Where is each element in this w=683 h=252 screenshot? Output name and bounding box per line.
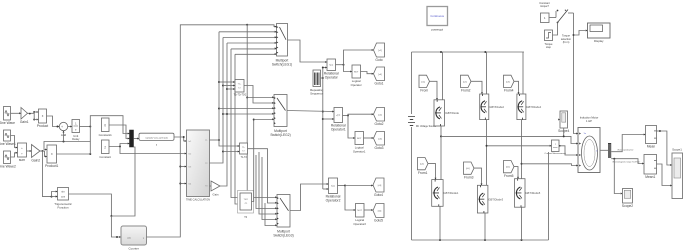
svg-text:Operator2: Operator2: [353, 222, 366, 226]
svg-text:Product: Product: [37, 124, 48, 128]
svg-text:Delay: Delay: [72, 137, 80, 141]
svg-text:Display: Display: [594, 39, 604, 43]
svg-text:Sequence: Sequence: [310, 92, 323, 96]
svg-text:Goto2: Goto2: [375, 122, 384, 126]
wire T2 out to bundle: [210, 38, 240, 164]
wire block B out to switch LEG3: [248, 149, 278, 204]
wire right rail from negative bus: [548, 152, 550, 240]
induction motor block: [578, 116, 600, 173]
svg-text:Continuous: Continuous: [430, 14, 444, 18]
svg-text:Goto3: Goto3: [375, 146, 384, 150]
scope Scope1: [672, 148, 683, 199]
source Sine Wave2: [0, 151, 16, 169]
svg-text:In4: In4: [189, 184, 192, 186]
wire IGBT4 emitter to negative bus: [439, 206, 441, 240]
svg-text:Constant1: Constant1: [99, 133, 113, 137]
svg-text:[s6]: [s6]: [506, 167, 510, 169]
gain Gain2: [31, 145, 40, 163]
wire AND1 to Goto3: [364, 137, 374, 139]
wire manual switch to display and motor Tm: [573, 13, 588, 134]
wire leg2 midpoint: [486, 120, 488, 186]
svg-text:Mean1: Mean1: [645, 175, 655, 179]
svg-text:powergui: powergui: [431, 28, 443, 32]
svg-text:Constant: Constant: [99, 155, 111, 159]
goto Goto1: [374, 67, 385, 86]
wire bus selector to Mean with signal label: [611, 134, 645, 152]
wire leg1 midpoint: [440, 126, 442, 180]
wire From3 to IGBT5 gate: [474, 168, 482, 185]
svg-text:[s4]: [s4]: [378, 74, 382, 76]
wire IGBT1 collector to bus: [442, 52, 444, 100]
svg-text:<Rotor speed (wm)>: <Rotor speed (wm)>: [617, 149, 633, 152]
svg-text:[s3]: [s3]: [378, 185, 382, 187]
igbt IGBT/Diode4: [517, 94, 542, 120]
wire gain2 to trigonometric function: [43, 151, 58, 198]
wire Constant to Mux: [109, 143, 130, 148]
igbt IGBT/Diode2: [480, 94, 505, 120]
multiport switch LEG2: [270, 95, 290, 137]
svg-text:1 HP: 1 HP: [586, 119, 592, 123]
svg-text:Operator: Operator: [325, 76, 339, 80]
svg-text:[s4]: [s4]: [420, 164, 424, 166]
svg-text:sqrt(u(1)*u(1)+u(2)*u(2)): sqrt(u(1)*u(1)+u(2)*u(2)): [145, 136, 168, 139]
wire IGBT3 collector to bus: [522, 52, 524, 94]
product Product: [37, 109, 48, 128]
svg-text:Sine Wave1: Sine Wave1: [0, 142, 16, 146]
wire relational2 to Goto4 and AND2: [338, 185, 374, 211]
wire taps to switch LEG2: [218, 96, 274, 197]
svg-text:IGBT/Diode1: IGBT/Diode1: [443, 191, 459, 195]
wire Product1 out to junction: [57, 142, 92, 156]
from block From1: [418, 158, 429, 175]
wire leg3 midpoint: [521, 120, 523, 179]
wire From4 to IGBT3 gate: [514, 81, 519, 94]
block A T1 T2 compare: [234, 80, 247, 97]
unit delay Unit Delay: [72, 120, 80, 142]
svg-text:TIME CALCULATION: TIME CALCULATION: [186, 198, 210, 201]
label torque selection: [561, 34, 572, 44]
svg-text:Goto5: Goto5: [374, 219, 383, 223]
wire taps to switch LEG3: [247, 196, 277, 198]
wire block C out up to switch LEG2 in6: [252, 118, 275, 201]
svg-text:From4: From4: [504, 89, 514, 93]
svg-text:From1: From1: [418, 171, 428, 175]
svg-text:[s1]: [s1]: [421, 81, 425, 83]
wire phase B to current measurement: [486, 145, 552, 147]
multiport switch LEG3: [273, 195, 293, 238]
wire Counter out up to switches: [147, 24, 277, 237]
source Sine Wave1: [0, 130, 16, 146]
wire Add to Unit Delay: [68, 126, 72, 128]
svg-text:2: 2: [104, 145, 106, 149]
svg-text:Operator: Operator: [351, 83, 362, 87]
svg-text:Gain2: Gain2: [31, 159, 40, 163]
igbt IGBT/Diode1: [432, 180, 459, 207]
svg-text:[s2]: [s2]: [378, 114, 382, 116]
wire IGBT2 collector to bus: [486, 52, 488, 94]
sum block sum: [18, 143, 27, 162]
svg-text:T1-: T1-: [242, 147, 245, 149]
wire stubs into switch LEG3 lower inputs: [256, 152, 277, 226]
relational operator1: [331, 108, 346, 132]
multiport switch LEG1: [272, 24, 292, 67]
svg-text:Gain: Gain: [213, 192, 219, 196]
wire bus selector to Mean1 with signal label: [611, 158, 644, 165]
svg-text:Mean: Mean: [647, 145, 655, 149]
svg-text:<=: <=: [331, 184, 335, 188]
gain Gain after T0: [210, 181, 221, 196]
svg-text:Product1: Product1: [45, 164, 58, 168]
sum Add: [59, 122, 67, 137]
svg-text:IGBT/Diode: IGBT/Diode: [445, 111, 460, 115]
goto Goto5: [373, 204, 384, 223]
goto Goto2: [374, 108, 385, 127]
svg-text:<=: <=: [329, 63, 333, 67]
wire IGBT5 emitter to negative bus: [484, 213, 486, 240]
logical operator AND1: [353, 132, 366, 154]
wire scope4 tap to phase A: [558, 119, 565, 138]
wire From5 to IGBT6 gate: [514, 167, 519, 179]
wire phase C to motor: [522, 164, 579, 167]
wire LEG3 out to Relational Operator2: [290, 183, 329, 210]
svg-text:Goto1: Goto1: [375, 82, 384, 86]
wire taps to block A: [218, 81, 235, 90]
scope Scope4: [558, 111, 569, 133]
svg-text:From2: From2: [461, 89, 471, 93]
svg-text:[s5]: [s5]: [466, 168, 470, 170]
wire motor signal to Scope2: [614, 159, 622, 195]
fcn block f: [139, 133, 174, 147]
svg-text:From3: From3: [464, 175, 474, 179]
wire T0 gain out to bundle: [220, 43, 227, 186]
wire DC left rail: [411, 52, 413, 240]
wire From to IGBT1 gate: [430, 81, 438, 100]
svg-text:T1-T2: T1-T2: [241, 157, 248, 159]
wire f to TIME CALCULATION in1: [174, 136, 187, 142]
svg-text:NOT: NOT: [357, 138, 362, 140]
wire Sine Wave to Gain1: [11, 112, 22, 114]
svg-text:Operator1: Operator1: [353, 149, 366, 153]
svg-text:Switch(LEG3): Switch(LEG3): [273, 233, 293, 237]
from block From5: [504, 161, 515, 178]
goto Goto4: [373, 178, 384, 197]
wire Gain1 to Product: [28, 111, 39, 121]
wire Gain2 to Product1: [40, 150, 47, 157]
wire bundle tops into switch LEG1: [219, 31, 277, 55]
svg-text:In2: In2: [189, 154, 192, 156]
svg-text:0: 0: [104, 123, 106, 127]
svg-text:Goto4: Goto4: [374, 193, 383, 197]
step block torque step: [545, 30, 554, 49]
svg-text:sin: sin: [61, 190, 65, 194]
block C T0 compare: [238, 191, 254, 220]
wire Constant branch to time calc in2: [120, 147, 187, 155]
bus selector: [608, 143, 611, 158]
svg-text:cos: cos: [61, 196, 66, 199]
wire Mean1 to Scope1: [657, 164, 673, 186]
manual switch torque selection: [549, 9, 574, 23]
svg-text:IGBT/Diode3: IGBT/Diode3: [488, 197, 504, 201]
svg-text:<Electromagnetic torque Te (N*: <Electromagnetic torque Te (N*m)>: [612, 160, 640, 163]
svg-text:IGBT/Diode5: IGBT/Diode5: [525, 191, 541, 195]
wire trig out to counter: [69, 147, 136, 238]
svg-text:step: step: [546, 45, 551, 49]
svg-text:Operator1: Operator1: [331, 128, 346, 132]
svg-text:[s3]: [s3]: [506, 81, 510, 83]
wire block A out to switch LEG2: [244, 86, 274, 104]
svg-text:+: +: [61, 125, 63, 129]
svg-text:Sine Wave2: Sine Wave2: [0, 165, 16, 169]
svg-text:NOT: NOT: [357, 210, 362, 212]
igbt IGBT/Diode5: [515, 179, 541, 208]
svg-text:Sine Wave: Sine Wave: [0, 121, 15, 125]
svg-text:From: From: [420, 89, 428, 93]
logical operator AND: [351, 65, 362, 87]
constant Constant: [99, 140, 111, 159]
relational operator2: [326, 178, 341, 203]
svg-text:<=: <=: [336, 113, 340, 117]
from block From: [419, 75, 430, 92]
wire relational to Goto and AND: [336, 49, 374, 72]
wire repeating sequence to relational ops: [321, 67, 335, 190]
wire sum to Gain2: [27, 150, 32, 152]
scope Scope2: [622, 189, 633, 209]
wire Unit Delay feedback and to Mux: [44, 116, 130, 151]
wire bundle vertical 4: [231, 49, 240, 199]
svg-text:[s5]: [s5]: [378, 138, 382, 140]
svg-text:Goto: Goto: [375, 58, 382, 62]
igbt IGBT/Diode3: [477, 185, 503, 213]
wire IGBT6 emitter to negative bus: [521, 207, 523, 240]
repeating sequence: [310, 70, 324, 96]
constant torque label and block: [539, 1, 550, 23]
wire Sine Wave2 to sum: [11, 152, 18, 157]
svg-text:T1+T2+T0/2: T1+T2+T0/2: [234, 94, 247, 96]
svg-text:In3: In3: [189, 167, 192, 169]
block B T1 T2 compare2: [240, 143, 248, 159]
wire LEG1 out to Relational Operator: [288, 40, 328, 63]
svg-text:IGBT/Diode2: IGBT/Diode2: [489, 105, 505, 109]
constant Constant1: [99, 118, 113, 137]
wire Constant1 to Mux: [109, 125, 130, 139]
relational operator: [324, 59, 339, 80]
subsystem Counter: [121, 226, 147, 251]
svg-text:NOT: NOT: [354, 71, 359, 73]
svg-text:u(k): u(k): [127, 237, 131, 239]
powergui block: [427, 7, 448, 32]
DC voltage source battery: [408, 117, 437, 128]
wire AND2 to Goto5: [364, 209, 373, 211]
goto Goto: [374, 43, 385, 62]
display block: [588, 23, 611, 43]
svg-text:T0/2: T0/2: [244, 199, 249, 201]
igbt IGBT/Diode: [434, 100, 460, 126]
goto Goto3: [374, 132, 385, 151]
wire LEG2 out to Relational Operator1: [287, 111, 334, 113]
svg-text:Current Measurement: Current Measurement: [545, 152, 567, 155]
mean block Mean: [646, 126, 657, 149]
svg-text:Scope2: Scope2: [622, 204, 633, 208]
wire current measurement to motor phase B: [559, 145, 578, 156]
svg-text:T0: T0: [205, 186, 207, 188]
wire motor to bus selector: [600, 149, 608, 151]
svg-text:(N-m): (N-m): [563, 40, 570, 44]
svg-text:From5: From5: [504, 174, 514, 178]
svg-text:[s2]: [s2]: [463, 81, 467, 83]
svg-text:Operator2: Operator2: [326, 199, 341, 203]
wire DC positive bus: [412, 51, 525, 53]
wire From1 to IGBT4 gate: [428, 164, 436, 180]
wire bundle vertical 5: [235, 54, 240, 205]
svg-text:IGBT/Diode4: IGBT/Diode4: [526, 105, 542, 109]
from block From3: [464, 162, 475, 179]
wire T1 out to bundle: [210, 32, 240, 147]
svg-text:sum: sum: [19, 158, 25, 162]
current measurement block: [545, 140, 567, 155]
svg-text:torque?: torque?: [540, 4, 549, 8]
wire DC negative bus: [412, 239, 549, 241]
gain Gain1: [20, 108, 29, 125]
source Sine Wave: [0, 107, 15, 126]
wire Mean to Scope1: [657, 130, 673, 166]
svg-text:Switch(LEG1): Switch(LEG1): [272, 62, 292, 66]
wire From2 to IGBT2 gate: [471, 81, 483, 94]
svg-text:[s6]: [s6]: [378, 211, 382, 213]
svg-text:In1: In1: [189, 141, 192, 143]
svg-text:Scope1: Scope1: [672, 148, 682, 152]
from block From4: [504, 75, 515, 92]
wire AND to Goto1: [361, 72, 374, 75]
wire Product to Add: [47, 116, 60, 128]
svg-text:T1: T1: [205, 140, 207, 142]
svg-text:Switch(LEG2): Switch(LEG2): [270, 133, 290, 137]
wire phase A to motor: [441, 136, 578, 144]
wire step to manual switch: [553, 23, 558, 36]
trigonometric function block: [54, 188, 72, 210]
logical operator AND2: [353, 204, 366, 226]
svg-text:T2: T2: [205, 163, 207, 165]
svg-text:Gain1: Gain1: [20, 120, 29, 124]
from block From2: [461, 75, 472, 92]
wire relational1 to Goto2 and AND1: [343, 113, 374, 139]
subsystem TIME CALCULATION: [186, 130, 210, 201]
product Product1: [45, 145, 58, 168]
svg-text:Function: Function: [57, 206, 68, 210]
svg-text:Counter: Counter: [129, 247, 139, 251]
svg-text:[s1]: [s1]: [378, 50, 382, 52]
svg-text:Induction Motor: Induction Motor: [580, 116, 599, 120]
mean block Mean1: [644, 155, 657, 180]
mux Mux: [130, 130, 140, 147]
wire Sine Wave1 to sum: [11, 136, 18, 149]
